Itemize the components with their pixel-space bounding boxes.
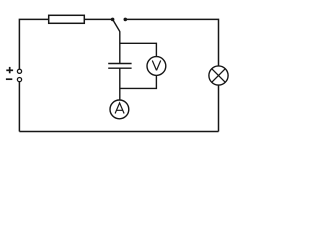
wire: switch blade to capacitor top plate — [119, 31, 121, 63]
wire: bottom rail — [19, 131, 218, 133]
lamp — [209, 66, 228, 85]
wire: voltmeter bottom branch — [120, 75, 157, 88]
terminal − (open circle) — [17, 78, 21, 82]
ammeter A — [110, 100, 129, 119]
label + — [6, 67, 13, 73]
wire: lamp to bottom rail — [218, 85, 220, 131]
wire: capacitor to ammeter — [119, 68, 121, 100]
terminal + (open circle) — [17, 69, 21, 73]
capacitor — [108, 64, 131, 69]
wire: voltmeter top branch — [120, 43, 157, 56]
label − — [6, 78, 12, 80]
wire: − terminal down to bottom rail — [18, 82, 20, 132]
wire: switch right contact to lamp — [125, 19, 218, 66]
voltmeter V — [147, 57, 166, 76]
switch (two-way, blade on left contact) — [111, 18, 127, 32]
wire: resistor to switch left contact — [85, 18, 113, 20]
resistor — [49, 15, 85, 23]
wire: + terminal up and across to resistor — [19, 19, 48, 69]
